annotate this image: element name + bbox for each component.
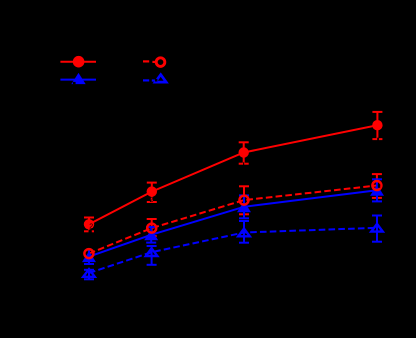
black annotation digits (visible only where over coloured ink) (89, 197, 153, 230)
S3 error bars (84, 179, 382, 264)
S4 markers (open triangles) (83, 224, 383, 277)
legend row2 left: solid blue + filled triangle (60, 73, 96, 84)
S2 markers (open circles, drawn on top) (84, 181, 381, 258)
S1 markers (84, 120, 383, 230)
svg-text:2: 2 (150, 197, 154, 204)
svg-text:2: 2 (89, 224, 93, 231)
series S2: red dashed line (89, 186, 377, 254)
legend row2 right: dashed blue + open triangle (143, 75, 166, 83)
legend row1 left: solid red + filled circle (60, 56, 96, 68)
S4 error bars (84, 216, 382, 280)
S3 markers (filled triangles) (82, 185, 384, 262)
series S3: blue solid line, filled triangles (89, 190, 377, 256)
legend row1 right: dashed red + open circle (143, 58, 165, 67)
series S4: blue dashed line, open triangles (89, 228, 377, 273)
series S1: red solid line, filled circles (89, 125, 377, 224)
S2 error bars (89, 174, 382, 258)
S1 error bars (84, 112, 382, 231)
